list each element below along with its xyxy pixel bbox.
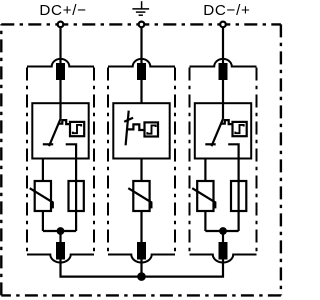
svg-text:DC+/−: DC+/− [39, 2, 86, 19]
svg-text:DC−/+: DC−/+ [203, 2, 250, 19]
